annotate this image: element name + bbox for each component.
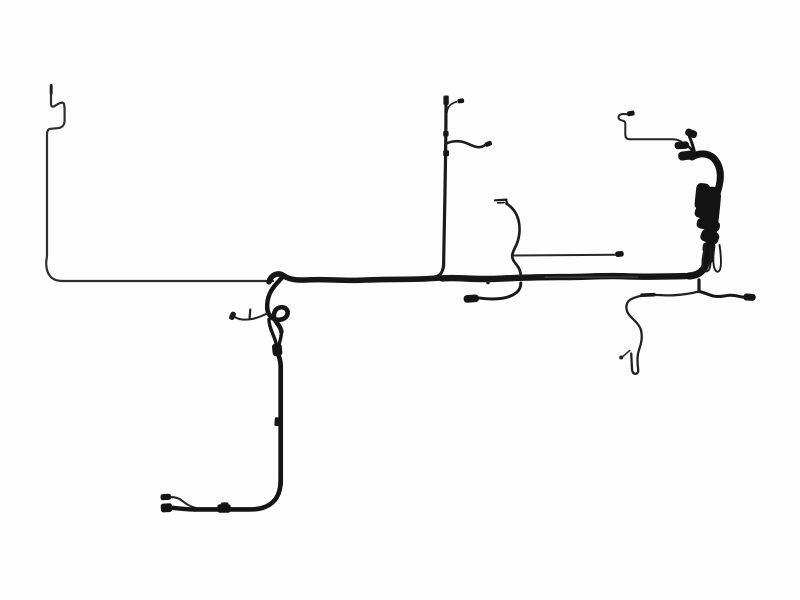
branch B1 main descent: [278, 353, 281, 484]
upper end connector: [160, 494, 171, 501]
lead to right connector: [699, 292, 747, 298]
splice wrap on squiggle: [642, 293, 654, 297]
bundle descending: [709, 196, 717, 259]
branch lead right off W2: [447, 141, 487, 147]
thin lead left of loop: [233, 313, 269, 320]
wire W1 thin lead top-left: [46, 88, 273, 281]
junction stub below harness right: [697, 280, 700, 291]
connector body second: [705, 186, 720, 211]
pigtail tick: [623, 351, 630, 357]
right end connector: [743, 293, 756, 301]
thin lead off W2 top: [447, 102, 457, 112]
connector cap of right lead: [484, 140, 492, 147]
terminal stub: [249, 310, 252, 318]
connector cap of thin lead: [457, 98, 464, 103]
connector cap top of W2: [443, 96, 448, 106]
tape wrap: [272, 343, 283, 356]
knot mass middle: [693, 205, 720, 223]
hanging wire loop a: [702, 246, 710, 271]
connector tip of W1: [50, 84, 53, 95]
connector cap of W5: [627, 110, 635, 116]
connector cap of W4: [615, 251, 624, 257]
highlight reflection on harness: [545, 276, 638, 278]
connector cluster C1: [684, 128, 698, 139]
hanging wire loop b: [713, 245, 721, 272]
squiggle wire left from junction: [626, 292, 699, 374]
thin jumper wire W4: [513, 254, 616, 257]
lower end connector: [161, 503, 173, 512]
strands converging below loop: [269, 320, 277, 348]
connector body big: [694, 183, 711, 211]
clip on W2 upper: [443, 131, 448, 137]
wire W2 vertical branch: [444, 101, 446, 266]
cable tie nub under harness: [486, 280, 489, 284]
connector tip of left lead: [228, 311, 236, 321]
corner and horizontal run of B1: [194, 480, 281, 509]
pigtail dot: [619, 356, 623, 360]
clip on descent: [274, 417, 279, 426]
connector cap left: [463, 294, 479, 303]
lower end lead: [173, 508, 196, 510]
clip on W2 lower: [443, 150, 449, 156]
tape wrap lower: [702, 242, 715, 253]
harness elbow bend up at right end: [689, 245, 709, 276]
hook lead W5 top-right: [618, 114, 681, 142]
thick arc of bundle: [692, 154, 720, 201]
loop knot of B1: [267, 307, 288, 332]
wire W3 below harness to connector: [478, 283, 521, 299]
thin lead to upper end connector: [171, 497, 197, 508]
ring terminal W3 (open barrel seen edge-on): [495, 199, 507, 202]
harness trunk thicker right section: [442, 276, 686, 279]
main harness trunk: [269, 274, 691, 282]
wire W2 foot joining harness: [433, 264, 444, 277]
wire W3 curl: [507, 204, 521, 278]
branch B1 dropping from harness: [267, 276, 283, 308]
clip on horizontal run: [221, 502, 228, 507]
